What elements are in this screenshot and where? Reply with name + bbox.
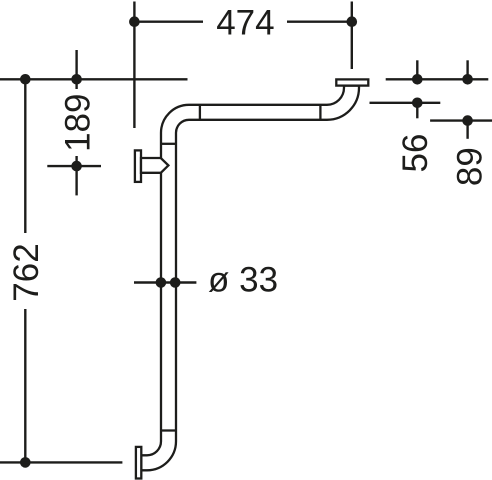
dimension 56 extension tick above bbox=[416, 60, 418, 79]
dimension 56 lower line bbox=[370, 102, 441, 104]
dimension 189 dot top bbox=[71, 74, 82, 85]
dimension diameter 33 dot left bbox=[156, 277, 167, 288]
dimension 474 dot right bbox=[347, 16, 358, 27]
dimension 762 bottom cross line bbox=[0, 461, 122, 463]
top wall flange plate bbox=[336, 79, 368, 85]
tube seam horizontal left bbox=[199, 105, 201, 120]
bottom wall flange plate bbox=[136, 447, 141, 479]
dimension 189 extension tick top bbox=[75, 50, 77, 89]
svg-text:189: 189 bbox=[58, 93, 97, 151]
dimension 89 dot bottom bbox=[462, 115, 473, 126]
dimension 474 extension line left bbox=[133, 2, 135, 129]
dimension 89 extension tick below bbox=[466, 121, 468, 139]
dimension 189 line lower segment bbox=[75, 156, 77, 195]
dimension 56 dot bottom bbox=[412, 98, 423, 109]
dimension 762 line lower segment bbox=[24, 309, 26, 462]
mid support flange plate bbox=[135, 150, 141, 182]
svg-text:474: 474 bbox=[216, 4, 274, 43]
svg-text:56: 56 bbox=[396, 134, 435, 173]
svg-text:762: 762 bbox=[7, 243, 46, 301]
dimension diameter 33 cross line bbox=[134, 281, 196, 283]
tube seam lower vertical bbox=[161, 429, 176, 431]
dimension 89 dot top bbox=[462, 74, 473, 85]
dimension 189 dot bottom bbox=[71, 161, 82, 172]
dimension 474 line left segment bbox=[134, 21, 203, 23]
dimension 56 dot top bbox=[412, 74, 423, 85]
wall reference line right bbox=[386, 78, 489, 80]
dimension 762 dot top bbox=[20, 74, 31, 85]
dimension 474 dot left bbox=[129, 16, 140, 27]
dimension 189 bottom cross line bbox=[47, 165, 101, 167]
dimension 56 extension tick below bbox=[416, 103, 418, 119]
wall reference line left bbox=[0, 78, 188, 80]
dimension 474 line right segment bbox=[287, 21, 352, 23]
dimension 89 extension tick above bbox=[466, 60, 468, 79]
tube seam upper vertical bbox=[161, 143, 176, 145]
dimension diameter 33 dot right bbox=[170, 277, 181, 288]
tube seam horizontal right bbox=[319, 105, 321, 120]
dimension 474 extension line right bbox=[351, 2, 353, 70]
svg-text:89: 89 bbox=[451, 147, 490, 186]
dimension 762 dot bottom bbox=[20, 457, 31, 468]
grab bar tube outline bbox=[141, 86, 359, 471]
dimension 762 line upper segment bbox=[24, 79, 26, 233]
svg-text:ø 33: ø 33 bbox=[208, 260, 278, 299]
dimension 89 lower line bbox=[430, 119, 492, 121]
mid support arm with cone tip bbox=[141, 158, 168, 173]
